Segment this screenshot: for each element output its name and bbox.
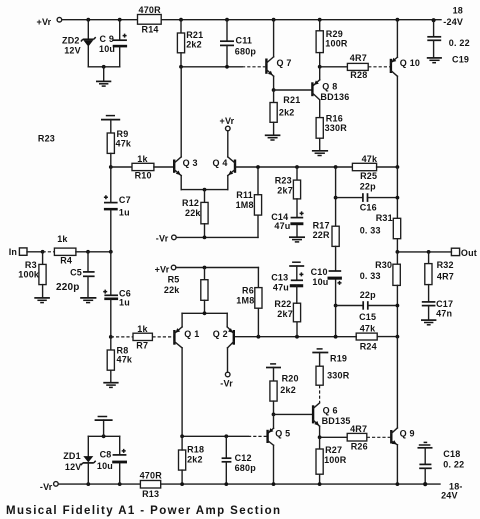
svg-text:330R: 330R [325,123,348,133]
ground below R3 [34,298,50,303]
node output / wire to Out terminal [396,250,452,254]
svg-text:Q 5: Q 5 [275,429,290,439]
wire +Vr row to R6 [176,266,259,270]
resistor R22 2k7 [274,299,300,337]
svg-text:220p: 220p [56,282,80,293]
svg-text:C18: C18 [443,449,460,459]
wire Q1/Q2 tail [182,311,227,315]
resistor R3 100k [18,252,46,297]
resistor R16 330R [316,114,347,151]
svg-text:47k: 47k [116,138,132,148]
svg-text:10u: 10u [312,277,328,287]
svg-text:47k: 47k [117,355,133,365]
svg-text:C11: C11 [236,36,253,46]
svg-text:470R: 470R [139,5,162,15]
resistor R18 2k2 [179,436,205,484]
wire upper feedback row y=167 [236,165,353,169]
node C6/R7/R8 [109,335,113,339]
svg-text:C5: C5 [70,268,82,278]
capacitor C9 10u [99,20,127,67]
node top rail junctions [86,18,435,22]
capacitor C5 220p [56,252,95,297]
wire bottom -V rail right [86,482,462,501]
wire top +V rail [62,19,441,21]
transistor Q6 BD135 [313,403,351,437]
wire lower drive row (R18/C12 to Q5 base) [180,434,267,438]
resistor R25 47k [352,154,399,181]
svg-text:+Vr: +Vr [37,17,52,27]
svg-text:R4: R4 [60,256,72,266]
svg-text:2k2: 2k2 [187,454,203,464]
svg-text:680p: 680p [235,47,257,57]
wire ZD1-C8 top link [88,434,119,438]
resistor R30 0.33 [360,252,401,337]
terminal Out [451,248,477,258]
svg-text:BD136: BD136 [320,92,349,102]
transistor Q7 [266,20,291,90]
svg-text:R14: R14 [142,25,159,35]
wire bottom -V rail left [58,483,140,485]
resistor R12 22k [182,198,208,237]
svg-text:R27: R27 [325,445,342,455]
svg-text:24V: 24V [441,491,458,501]
ground below C5 [80,298,96,303]
capacitor C16 22p [336,181,398,212]
svg-text:1u: 1u [119,298,130,308]
svg-text:R24: R24 [360,342,377,352]
terminal +Vr (Q4 collector) [220,116,235,131]
svg-text:1k: 1k [57,234,68,244]
svg-text:Q 10: Q 10 [400,58,420,68]
svg-text:1k: 1k [137,154,148,164]
svg-text:ZD2: ZD2 [62,36,80,46]
ground below C14 [289,237,305,242]
resistor R14 470R [138,5,162,35]
svg-text:C8: C8 [100,449,112,459]
capacitor C7 1u [104,167,131,252]
svg-text:2k2: 2k2 [279,107,295,117]
ground below R8 [103,383,118,388]
svg-text:C10: C10 [311,267,328,277]
svg-text:-24V: -24V [443,17,463,27]
resistor R10 1k [111,154,174,180]
svg-text:C12: C12 [235,453,252,463]
svg-text:R28: R28 [350,70,367,80]
zener diode ZD1 12V [63,436,95,484]
resistor R27 100R [316,437,347,484]
ground below C9 [96,67,111,86]
svg-text:Q 7: Q 7 [277,58,292,68]
node Q7 collector / Q8 base [272,88,276,92]
resistor R4 1k [54,234,88,266]
node Q6 emitter / R26 / R27 [318,435,322,439]
resistor R9 47k [107,129,132,167]
svg-text:4R7: 4R7 [350,53,367,63]
svg-text:R32: R32 [437,260,454,270]
terminal -Vr bottom-left [40,482,58,492]
svg-text:R23: R23 [275,176,292,186]
svg-text:0. 33: 0. 33 [360,271,381,281]
svg-text:47k: 47k [362,154,378,164]
transistor Q1 [174,313,199,436]
terminal In [9,247,27,257]
wire output rail upper [396,167,398,218]
capacitor C10 10u [311,246,342,305]
capacitor C6 1u [103,252,131,337]
resistor R7 1k [111,324,174,350]
svg-text:In: In [9,247,17,257]
svg-text:22p: 22p [360,181,376,191]
svg-text:2k2: 2k2 [280,385,296,395]
capacitor C15 22p [336,290,400,322]
svg-text:-Vr: -Vr [156,234,169,244]
ground below R21 right [265,135,281,140]
svg-text:R16: R16 [326,114,343,124]
svg-text:R5: R5 [168,275,180,285]
node C10/C15 [334,304,338,308]
wire In to node [27,251,43,253]
svg-text:0. 22: 0. 22 [449,38,470,48]
svg-text:R7: R7 [136,340,148,350]
resistor R6 1M8 [236,268,262,337]
svg-text:R23: R23 [38,134,55,144]
rail stub above R20 [266,364,281,381]
wire upper node row (R21/C11 to Q7 base) [179,65,265,69]
svg-text:22k: 22k [164,285,180,295]
svg-text:+Vr: +Vr [220,116,235,126]
svg-text:R21: R21 [186,30,203,40]
rail stub above R9 [101,116,120,133]
svg-text:0. 22: 0. 22 [443,459,464,469]
capacitor C8 10u [97,436,127,484]
svg-text:C7: C7 [119,195,131,205]
svg-text:100R: 100R [324,455,347,465]
node R4/C5 [86,250,90,254]
svg-text:680p: 680p [235,463,257,473]
resistor R5 22k [164,268,208,314]
resistor R20 2k2 [270,373,299,414]
svg-text:C13: C13 [271,273,288,283]
resistor R21 2k2 (right) [270,90,300,134]
svg-text:R31: R31 [376,213,393,223]
svg-text:R20: R20 [282,373,299,383]
svg-text:Musical Fidelity A1 - Power Am: Musical Fidelity A1 - Power Amp Section [6,505,282,517]
resistor R26 4R7 [320,424,391,451]
svg-text:C15: C15 [359,312,376,322]
svg-text:2k2: 2k2 [186,40,202,50]
resistor R29 100R [316,20,348,67]
resistor R19 330R [316,353,350,403]
node input/main vertical [109,250,113,254]
svg-text:R17: R17 [313,221,330,231]
wire Q3/Q4 tail [181,188,228,203]
svg-text:-Vr: -Vr [40,482,53,492]
wire Q5 collector to Q6 base [274,413,313,415]
svg-text:4R7: 4R7 [437,272,454,282]
wire ZD2-C9 bottom link [88,66,119,68]
ground below R16 [312,151,328,156]
svg-text:22R: 22R [313,230,330,240]
svg-text:R3: R3 [25,260,37,270]
resistor R11 1M8 [236,167,262,237]
svg-text:Out: Out [461,248,477,258]
node R20/Q5/Q6 base [272,413,276,417]
svg-text:1k: 1k [137,324,148,334]
resistor R28 4R7 [320,53,390,80]
svg-text:R6: R6 [242,285,254,295]
wire -Vr rail to R11 [176,236,258,240]
svg-text:100R: 100R [325,39,348,49]
svg-text:R25: R25 [360,171,377,181]
node R9/R10/C7 [109,165,113,169]
resistor R24 47k [356,324,399,352]
svg-text:R13: R13 [142,489,159,499]
svg-text:C16: C16 [360,202,377,212]
capacitor C14 47u [271,199,303,237]
svg-text:C19: C19 [452,54,469,64]
svg-text:Q 1: Q 1 [184,329,199,339]
transistor Q3 [174,67,198,190]
rail stub above R19 [312,349,328,366]
transistor Q9 [391,337,414,485]
terminal -Vr (upper) [156,234,176,244]
resistor R17 22R [313,167,340,246]
svg-text:2k7: 2k7 [277,309,293,319]
svg-text:C17: C17 [436,299,453,309]
resistor R31 0.33 [360,196,401,252]
wire C10 node down to lower row [335,306,337,337]
svg-text:R30: R30 [375,260,392,270]
svg-text:22k: 22k [185,208,201,218]
svg-text:Q 6: Q 6 [323,406,338,416]
wire input node to main rail [88,251,111,253]
terminal +Vr (lower) [155,264,176,274]
svg-text:ZD1: ZD1 [63,451,81,461]
svg-text:R26: R26 [351,442,368,452]
svg-text:R21: R21 [283,95,300,105]
capacitor C13 47u [271,262,304,303]
svg-text:Q 4: Q 4 [213,158,228,168]
svg-text:100k: 100k [18,270,40,280]
svg-text:C 9: C 9 [100,34,115,44]
svg-text:330R: 330R [327,370,350,380]
svg-text:12V: 12V [64,45,81,55]
capacitor C11 680p [220,20,256,67]
svg-text:Q 2: Q 2 [213,329,228,339]
terminal -Vr (Q2 collector) [220,372,233,388]
svg-text:22p: 22p [360,290,376,300]
rail stub above ZD1/C8 [95,417,113,437]
terminal +Vr top-left [37,17,62,27]
capacitor C19 0.22 [427,6,470,65]
wire lower feedback row y=336.7 [235,335,357,339]
node R29/Q8 emitter [318,65,322,69]
svg-text:2k7: 2k7 [277,186,293,196]
svg-text:BD135: BD135 [322,416,351,426]
node In/R3 [41,250,45,254]
node ZD2/C9 ground tap [102,65,106,69]
svg-text:1u: 1u [119,207,130,217]
svg-text:18: 18 [453,6,463,16]
wire Q7 to Q8 base [274,89,312,91]
resistor R8 47k [107,337,133,382]
transistor Q5 [268,414,291,484]
resistor R13 470R [140,471,163,499]
resistor R23 2k7 [275,167,301,199]
resistor R21 2k2 (left) [177,20,203,67]
svg-text:47u: 47u [273,283,289,293]
svg-text:R11: R11 [236,190,253,200]
svg-text:470R: 470R [140,471,163,481]
svg-text:47n: 47n [436,309,452,319]
zener diode ZD2 12V [62,20,96,67]
svg-text:R12: R12 [182,198,199,208]
svg-text:R18: R18 [187,444,204,454]
svg-text:10u: 10u [97,461,113,471]
ground below C17 [421,320,436,325]
svg-text:1M8: 1M8 [236,296,254,306]
resistor R32 4R7 [425,252,454,302]
svg-text:R19: R19 [330,353,347,363]
svg-text:12V: 12V [65,462,82,472]
transistor Q8 BD136 [312,67,349,118]
svg-text:0. 33: 0. 33 [360,225,381,235]
capacitor C18 0.22 [418,442,465,484]
svg-text:47u: 47u [274,221,290,231]
transistor Q10 [391,20,420,167]
svg-text:Q 9: Q 9 [400,429,415,439]
svg-text:R10: R10 [135,171,152,181]
svg-text:-Vr: -Vr [220,379,233,389]
svg-text:1M8: 1M8 [236,200,254,210]
svg-text:10u: 10u [99,44,115,54]
capacitor C12 680p [222,436,257,484]
svg-text:R22: R22 [274,299,291,309]
svg-text:Q 8: Q 8 [322,81,337,91]
wire node to R4 [43,251,55,253]
svg-text:4R7: 4R7 [350,424,367,434]
capacitor C17 47n [422,299,453,319]
svg-text:47k: 47k [360,324,376,334]
transistor Q4 [213,131,236,190]
transistor Q2 [213,313,234,372]
svg-text:Q 3: Q 3 [183,158,198,168]
svg-text:+Vr: +Vr [155,264,170,274]
